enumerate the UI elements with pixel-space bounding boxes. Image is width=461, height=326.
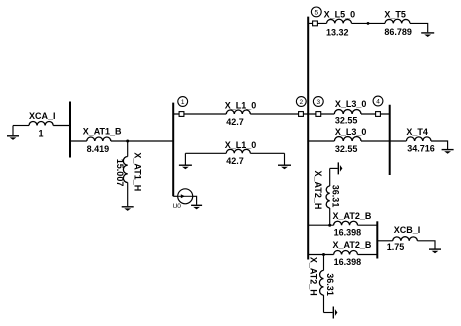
svg-text:X_AT2_B: X_AT2_B [333, 211, 372, 221]
node junction dot [126, 140, 129, 143]
wire bus2 to X_AT2_B lower [308, 254, 333, 256]
node junction dot [322, 253, 325, 256]
wire bus2 to X_L3_0 zero sequence [308, 140, 334, 142]
wire X_AT2_B lower to bus B [358, 254, 378, 256]
node 2 circle [296, 97, 306, 107]
svg-text:3: 3 [316, 99, 320, 106]
wire bus A to X_AT1_B [70, 140, 87, 142]
wire bus2 to X_L3_0 [308, 113, 334, 115]
wire X_T5 to ground [410, 23, 428, 32]
wire bus1 to X_L1_0 [173, 113, 226, 115]
svg-text:X_AT2_H: X_AT2_H [309, 257, 319, 296]
svg-text:U0: U0 [173, 203, 182, 210]
ground (right end of zero sequence line) [278, 153, 291, 169]
inductor X_T5 [384, 9, 412, 37]
svg-text:X_T4: X_T4 [406, 127, 428, 137]
svg-text:X_L1_0: X_L1_0 [225, 100, 257, 110]
ground (below X_AT1_H) [122, 207, 134, 211]
inductor X_L1_0 [225, 100, 257, 127]
svg-text:X_AT1_B: X_AT1_B [83, 127, 122, 137]
bus A [69, 102, 71, 158]
svg-text:X_L1_0: X_L1_0 [225, 140, 257, 150]
inductor X_AT1_H [115, 141, 142, 206]
node 5 circle [311, 7, 321, 17]
svg-text:XCA_I: XCA_I [29, 111, 56, 121]
inductor X_AT2_H upper [313, 168, 341, 225]
terminal square node 5 [313, 21, 318, 26]
svg-text:X_L5_0: X_L5_0 [324, 9, 356, 19]
svg-text:16.398: 16.398 [334, 227, 362, 237]
svg-text:15.007: 15.007 [115, 159, 125, 187]
svg-text:36.31: 36.31 [325, 273, 335, 296]
svg-text:5: 5 [314, 9, 318, 16]
inductor XCB_I [387, 225, 420, 252]
inductor XCA_I [29, 111, 56, 139]
node 4 circle [373, 96, 383, 106]
wire X_L3_0 zero sequence to X_T4 [361, 140, 406, 142]
wire ground to XCA_I [13, 125, 29, 127]
svg-text:36.31: 36.31 [331, 185, 341, 208]
inductor X_L3_0 [334, 99, 366, 126]
ground (rotated, top of X_AT2_H upper) [338, 162, 342, 174]
wire X_AT2_B upper to bus B [358, 224, 378, 226]
svg-text:42.7: 42.7 [226, 117, 244, 127]
ground (right of XCB_I) [429, 249, 441, 253]
inductor X_L3_0 zero sequence [334, 127, 366, 154]
svg-text:1: 1 [39, 129, 44, 139]
terminal square node 1 [179, 112, 184, 117]
svg-text:8.419: 8.419 [87, 144, 110, 154]
wire bus2 to X_L5_0 [308, 22, 326, 24]
svg-text:34.716: 34.716 [407, 143, 435, 153]
node 1 circle [178, 97, 188, 107]
wire bus2 to X_AT2_B upper [308, 224, 333, 226]
wire X_AT2_H lower to ground [324, 312, 333, 314]
svg-text:42.7: 42.7 [226, 156, 244, 166]
svg-text:X_L3_0: X_L3_0 [335, 127, 367, 137]
svg-text:X_L3_0: X_L3_0 [335, 99, 367, 109]
inductor X_L5_0 [324, 9, 356, 37]
svg-text:13.32: 13.32 [326, 27, 349, 37]
terminal square node 2 [299, 112, 304, 117]
terminal square node 3 [316, 112, 321, 117]
node 3 circle [313, 97, 323, 107]
bus 2 [307, 17, 309, 260]
svg-text:2: 2 [299, 99, 303, 106]
ground (right of X_T4) [442, 150, 454, 154]
svg-text:1: 1 [181, 99, 185, 106]
inductor X_AT1_B [83, 127, 122, 154]
inductor X_T4 [406, 127, 434, 153]
wire X_T4 to ground [431, 141, 448, 149]
svg-text:16.398: 16.398 [334, 257, 362, 267]
ground (left of XCA_I) [7, 126, 19, 140]
inductor X_AT2_B upper [333, 211, 372, 237]
AC source U0 [173, 189, 193, 210]
wire X_L1_0 to bus 2 [250, 113, 308, 115]
wire bus B to XCB_I [377, 240, 392, 242]
svg-text:86.789: 86.789 [384, 27, 412, 37]
inductor X_AT2_H lower [309, 255, 336, 313]
svg-text:32.55: 32.55 [335, 144, 358, 154]
wire X_AT2_H upper to ground [330, 167, 338, 169]
bus B [376, 221, 378, 258]
ground (right of X_T5) [421, 33, 434, 37]
node junction dot [328, 224, 331, 227]
svg-text:XCB_I: XCB_I [394, 225, 421, 235]
svg-text:4: 4 [376, 98, 380, 105]
svg-text:X_AT1_H: X_AT1_H [133, 152, 143, 191]
terminal square node 4 [376, 112, 381, 117]
wire X_L5_0 to X_T5 [352, 22, 386, 24]
bus 4 [389, 105, 391, 175]
svg-text:X_T5: X_T5 [384, 9, 406, 19]
svg-text:X_AT2_B: X_AT2_B [333, 240, 372, 250]
svg-text:X_AT2_H: X_AT2_H [313, 171, 323, 210]
wire bus1 to source U0 [173, 195, 178, 197]
wire XCA_I to bus A [53, 125, 70, 127]
ground (right of source U0) [191, 205, 202, 209]
wire X_AT1_B to bus 1 [111, 140, 173, 142]
node junction dot [367, 22, 370, 25]
svg-text:1.75: 1.75 [387, 242, 405, 252]
inductor X_L1_0 zero sequence [185, 140, 284, 166]
ground (left end of zero sequence line) [179, 153, 192, 169]
ground (rotated, below X_AT2_H lower) [333, 307, 337, 319]
bus 1 [172, 103, 174, 197]
inductor X_AT2_B lower [333, 240, 372, 267]
wire XCB_I to ground [417, 241, 435, 249]
wire X_L3_0 to bus 4 [361, 113, 390, 115]
svg-text:32.55: 32.55 [335, 116, 358, 126]
wire source U0 to ground [193, 196, 197, 204]
